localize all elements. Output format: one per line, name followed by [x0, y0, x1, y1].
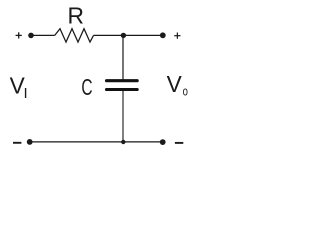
minus terminal marker (Vo −) — [175, 142, 183, 144]
svg-text:R: R — [67, 3, 83, 29]
node: bottom-right terminal — [160, 139, 166, 145]
plus terminal marker (Vo +) — [174, 33, 180, 39]
wire: top-left terminal to resistor — [31, 34, 55, 36]
wire: resistor to top junction — [94, 34, 124, 36]
svg-text:o: o — [183, 84, 188, 99]
plus terminal marker (Vin +) — [16, 32, 22, 38]
capacitor C — [107, 81, 138, 90]
svg-text:V: V — [167, 71, 183, 97]
node: top-left terminal — [28, 33, 34, 39]
svg-text:I: I — [24, 85, 28, 102]
label V_o (output voltage) — [167, 71, 188, 98]
wire: top junction down to capacitor — [122, 35, 124, 79]
label V_I (input voltage) — [10, 72, 28, 102]
wire: bottom-left terminal to bottom junction — [30, 141, 124, 143]
wire: capacitor down to bottom junction — [122, 91, 124, 142]
node: top-right terminal — [160, 32, 166, 38]
wire: top junction to top-right terminal — [123, 34, 162, 36]
svg-text:C: C — [81, 74, 92, 100]
resistor R — [55, 29, 94, 42]
minus terminal marker (Vin −) — [13, 142, 21, 144]
wire: bottom junction to bottom-right terminal — [123, 141, 162, 143]
node: bottom-left terminal — [27, 139, 33, 145]
node: top junction — [121, 33, 126, 38]
node: bottom junction — [121, 140, 125, 144]
